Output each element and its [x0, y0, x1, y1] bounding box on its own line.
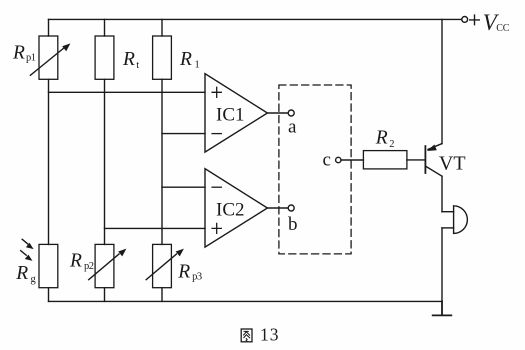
speaker body — [454, 206, 468, 234]
svg-text:R: R — [375, 128, 388, 149]
svg-text:p1: p1 — [26, 52, 36, 63]
wire Rp2 bottom stub — [104, 288, 106, 302]
svg-text:R: R — [177, 261, 190, 282]
svg-text:R: R — [15, 263, 28, 284]
potentiometer Rp3 arrow — [146, 254, 176, 280]
speaker stub bottom — [442, 227, 454, 229]
terminal a — [288, 110, 294, 116]
caption glyph 图 — [241, 329, 252, 342]
svg-text:R: R — [122, 49, 135, 70]
speaker stub top — [442, 211, 454, 213]
wire collector down to speaker — [441, 176, 443, 212]
svg-text:IC2: IC2 — [216, 200, 245, 221]
wire node C to IC2 noninverting input — [105, 227, 206, 229]
svg-text:a: a — [288, 116, 297, 137]
wire bottom rail — [49, 300, 443, 302]
wire column3 vertical (R1 bottom to Rp3 top) — [161, 79, 163, 244]
svg-text:R: R — [69, 251, 82, 272]
op-amp IC1 — [205, 74, 267, 153]
wire column2 top stub — [104, 19, 106, 36]
svg-text:1: 1 — [195, 60, 200, 71]
photoresistor Rg body — [39, 244, 58, 287]
svg-text:c: c — [323, 150, 331, 171]
wire emitter to top rail — [441, 19, 443, 143]
resistor R1 body — [153, 36, 172, 79]
wire column1 top stub — [48, 19, 50, 36]
svg-text:VT: VT — [439, 153, 466, 175]
svg-text:g: g — [31, 274, 37, 285]
wire IC1 output — [267, 112, 288, 114]
label +Vcc — [470, 15, 480, 25]
potentiometer Rp2 arrow — [89, 254, 119, 280]
svg-text:2: 2 — [389, 139, 394, 150]
wire top supply rail — [49, 18, 462, 20]
svg-text:p2: p2 — [84, 261, 94, 272]
svg-text:b: b — [288, 214, 298, 235]
ground — [433, 301, 452, 315]
wire node B to IC1 inverting input — [162, 133, 205, 135]
potentiometer Rp3 body — [153, 244, 172, 287]
resistor Rt body — [95, 36, 114, 79]
transistor VT emitter — [428, 144, 442, 150]
transistor VT collector — [426, 166, 442, 176]
potentiometer Rp1 body — [39, 36, 58, 79]
wire node A to IC1 noninverting input — [49, 91, 206, 93]
wire R2 to base — [407, 159, 425, 161]
wire speaker to bottom rail — [441, 228, 443, 302]
svg-text:t: t — [136, 60, 139, 71]
transistor VT base bar — [424, 146, 426, 173]
terminal b — [288, 205, 294, 211]
dashed box — [279, 85, 351, 254]
wire Rp3 bottom stub — [161, 288, 163, 302]
photoresistor Rg light arrow 2 — [21, 251, 27, 256]
svg-text:R: R — [12, 42, 25, 63]
wire node B to IC2 inverting input — [162, 186, 205, 188]
svg-text:13: 13 — [260, 324, 280, 344]
svg-text:R: R — [179, 49, 192, 70]
potentiometer Rp2 body — [95, 244, 114, 287]
wire c to R2 — [341, 159, 363, 161]
potentiometer Rp1 arrow — [30, 48, 63, 75]
terminal +Vcc — [462, 17, 468, 23]
resistor R2 body — [363, 151, 407, 169]
svg-text:p3: p3 — [192, 272, 202, 283]
terminal c — [336, 157, 341, 162]
op-amp IC2 — [205, 169, 267, 248]
photoresistor Rg light arrow 1 — [22, 239, 28, 244]
svg-text:CC: CC — [496, 23, 509, 34]
svg-text:IC1: IC1 — [216, 105, 245, 126]
wire column2 vertical (Rt bottom to Rp2 top) — [104, 79, 106, 244]
wire IC2 output — [267, 207, 288, 209]
wire Rg bottom stub — [48, 288, 50, 302]
wire column3 top stub — [161, 19, 163, 36]
wire column1 vertical (Rp1 bottom to Rg top) — [48, 79, 50, 244]
